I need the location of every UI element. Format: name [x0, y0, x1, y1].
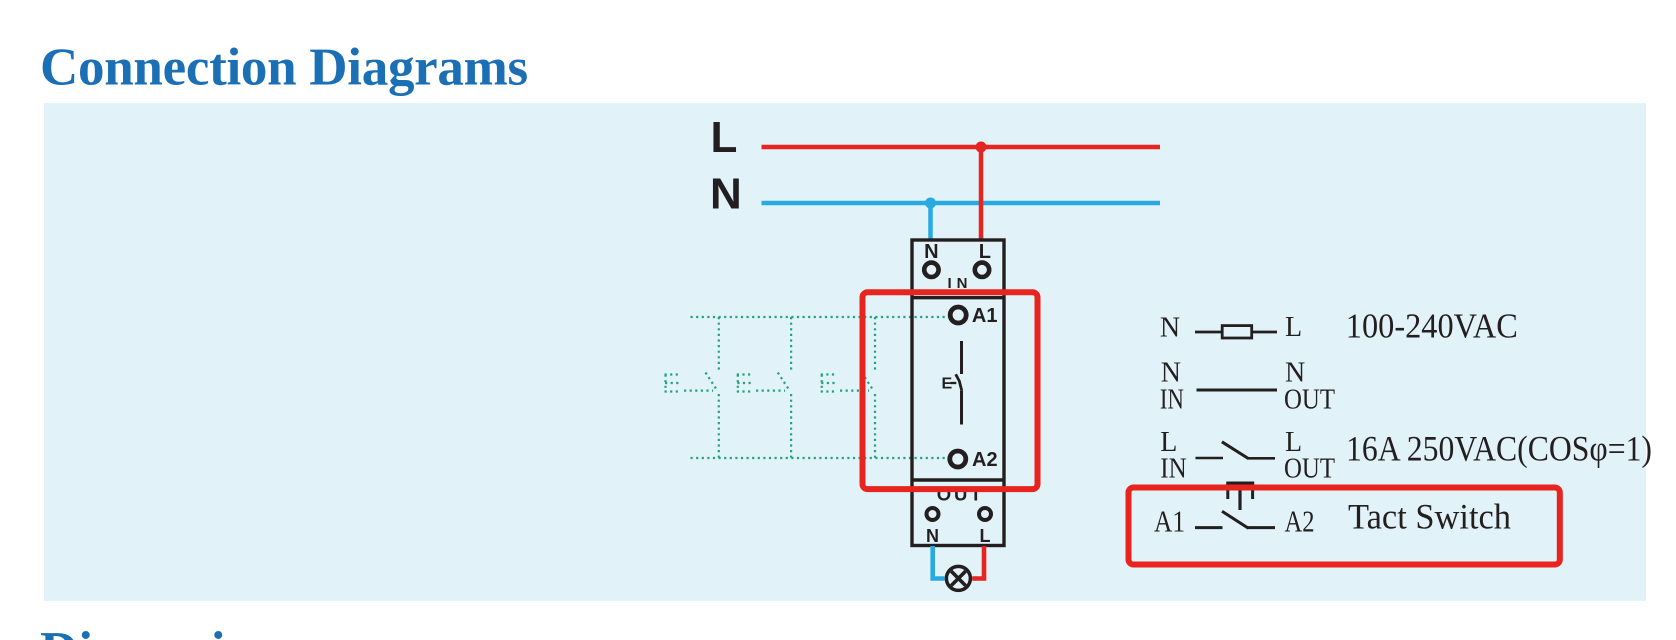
row1 lead left [1195, 331, 1223, 334]
ghost switch 3 E label [821, 375, 869, 392]
ghost switch 3 blade [862, 373, 874, 392]
svg-text:A1: A1 [972, 305, 998, 327]
lamp symbol [946, 566, 970, 590]
wire L out to lamp [972, 546, 984, 579]
highlight rect on device [863, 292, 1038, 489]
wire N drop to device [928, 203, 933, 241]
row3 switch right lead [1247, 457, 1275, 460]
panel background [44, 103, 1646, 601]
switch blade [956, 374, 962, 391]
svg-text:A2: A2 [1285, 504, 1315, 539]
terminal circle L out [979, 508, 991, 520]
svg-text:Dimensions: Dimensions [40, 622, 302, 640]
highlight rect on tact switch row [1129, 488, 1560, 565]
row4 tact actuator bar [1226, 482, 1254, 485]
E dash [951, 382, 957, 384]
row4 switch left lead [1195, 526, 1223, 529]
svg-text:L: L [1285, 312, 1302, 343]
ghost bottom rail [691, 457, 949, 459]
junction dot on N [925, 198, 936, 209]
svg-text:L: L [979, 241, 991, 263]
svg-text:16A 250VAC(COSφ=1): 16A 250VAC(COSφ=1) [1346, 429, 1652, 469]
ghost switch 1 E label [665, 375, 714, 392]
svg-text:OUT: OUT [1284, 385, 1335, 416]
row3 switch left lead [1196, 457, 1224, 460]
device divider top [912, 296, 1004, 299]
ghost switch 2 blade [778, 373, 790, 392]
row4 tact stem [1238, 483, 1241, 510]
svg-text:N: N [924, 241, 938, 263]
svg-text:N: N [710, 170, 742, 219]
svg-text:IN: IN [1160, 453, 1186, 484]
device outline [912, 240, 1004, 546]
junction dot on L [976, 142, 987, 153]
row4 tact right tick [1251, 483, 1254, 499]
svg-text:N: N [926, 526, 939, 546]
device divider bottom [912, 478, 1004, 481]
row4 switch right lead [1247, 526, 1275, 529]
svg-text:Tact Switch: Tact Switch [1348, 497, 1511, 537]
ghost top rail [691, 316, 949, 318]
switch top lead [960, 341, 963, 374]
terminal circle N in [924, 263, 938, 277]
ghost switch 3 bottom lead [874, 394, 876, 458]
ghost switch 3 top lead [874, 317, 876, 370]
ghost switch 1 bottom lead [718, 394, 720, 458]
ghost switch 2 top lead [790, 317, 792, 370]
svg-text:L: L [980, 526, 991, 546]
row2 wire [1197, 389, 1278, 392]
wire L drop to device [979, 147, 984, 241]
svg-text:A1: A1 [1154, 504, 1185, 539]
terminal circle L in [975, 263, 989, 277]
row3 switch blade [1222, 442, 1248, 459]
svg-text:A2: A2 [972, 449, 998, 471]
ghost switch 1 top lead [718, 317, 720, 370]
svg-text:OUT: OUT [1284, 453, 1335, 484]
wire L (red) [762, 145, 1161, 150]
row1 fuse body [1222, 326, 1252, 338]
terminal circle N out [927, 508, 939, 520]
ghost dotted network [665, 317, 949, 458]
wire N (blue) [762, 201, 1161, 206]
terminal circle A2 [950, 451, 966, 467]
row4 switch blade [1222, 511, 1248, 528]
ghost switch 2 bottom lead [790, 394, 792, 458]
switch bottom lead [960, 391, 963, 425]
svg-text:L: L [711, 113, 738, 162]
ghost switch 1 blade [706, 373, 718, 392]
svg-text:Connection Diagrams: Connection Diagrams [40, 39, 528, 97]
wire N out to lamp [933, 546, 945, 579]
svg-text:N: N [1160, 313, 1180, 344]
row4 tact left tick [1226, 483, 1229, 499]
ghost switch 2 E label [737, 375, 785, 392]
row1 lead right [1252, 331, 1277, 334]
svg-text:100-240VAC: 100-240VAC [1346, 307, 1518, 346]
terminal circle A1 [950, 307, 966, 323]
svg-text:IN: IN [1160, 385, 1184, 416]
